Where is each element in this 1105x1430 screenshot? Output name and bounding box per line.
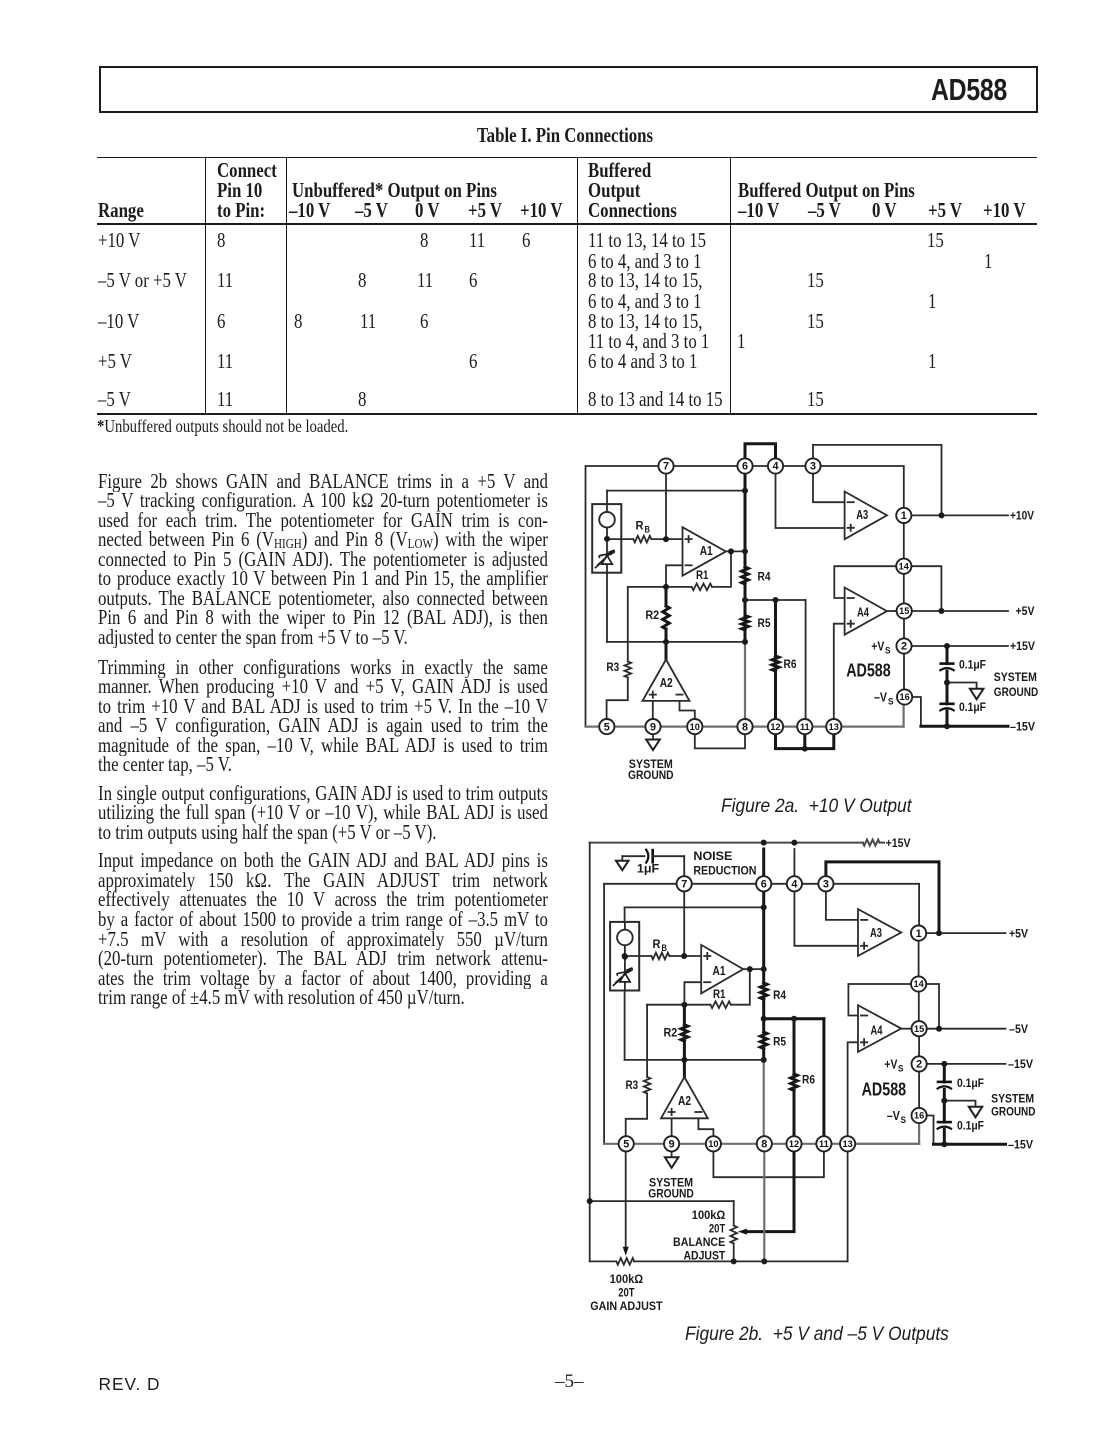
wire pin3 drop to A3 inverting input	[826, 891, 858, 920]
pin 9	[645, 719, 660, 734]
svg-text:NOISE: NOISE	[693, 849, 732, 863]
svg-text:12: 12	[770, 722, 780, 732]
resistor R3	[607, 662, 632, 720]
svg-text:R2: R2	[645, 608, 659, 622]
label C1 0.1uF	[957, 1076, 984, 1090]
gain wiper arrowhead	[623, 1247, 629, 1256]
wire balance pot top to left rail	[590, 1200, 734, 1202]
resistor R2	[663, 606, 670, 629]
wire A1 output to pin6 column	[726, 550, 745, 552]
pin 5	[619, 1136, 634, 1151]
resistor R2 column (thick)	[665, 587, 668, 642]
junction RB-A1 node under pin7	[681, 953, 687, 959]
wire -5V rail	[927, 1028, 1006, 1030]
svg-text:S: S	[888, 697, 894, 707]
resistor R2 label	[645, 608, 659, 622]
svg-text:0.1μF: 0.1μF	[957, 1076, 984, 1090]
svg-text:GROUND: GROUND	[648, 1186, 694, 1200]
svg-text:R5: R5	[773, 1035, 786, 1049]
pin 4	[768, 458, 783, 473]
wire left outer rail	[589, 843, 591, 1262]
resistor R6	[772, 656, 779, 671]
label GAIN ADJUST	[590, 1272, 663, 1313]
capacitor 1uF noise reduction	[622, 849, 684, 877]
wire pin7 left rail to pin5	[603, 884, 605, 1144]
resistor R6 column (thick)	[774, 600, 777, 719]
junction pin6 column on top rail	[761, 840, 767, 846]
wire bottom pin bus	[586, 704, 904, 726]
wire pin15 to pin2	[903, 618, 905, 638]
junction decoupling midpoint	[944, 680, 950, 686]
svg-text:A1: A1	[700, 543, 713, 558]
wire pin16 jog to -15V rail	[926, 1116, 933, 1145]
capacitor C1 0.1uF	[939, 664, 954, 671]
pin 1	[911, 926, 926, 941]
table body	[98, 232, 140, 252]
svg-text:R6: R6	[802, 1073, 815, 1087]
wire bottom pin bus	[604, 1124, 919, 1144]
wire zener chain below box	[624, 991, 626, 1060]
wire -15V rail (thick)	[921, 725, 1008, 728]
capacitor C1 0.1uF	[937, 1082, 952, 1089]
junction R6 top node	[791, 1016, 797, 1022]
footnote	[97, 416, 348, 437]
wire +5V rail	[927, 932, 1006, 934]
label -15V	[1010, 720, 1036, 734]
wire A2 inverting to pin10	[698, 1118, 713, 1136]
table header	[217, 162, 277, 182]
wire pin1 to pin14	[903, 523, 905, 559]
junction pin4 column on top rail	[791, 840, 797, 846]
wire pin2 to pin16	[918, 1072, 920, 1108]
pin 2	[912, 1056, 927, 1071]
wire RB node to A1 noninverting input	[607, 538, 683, 540]
wire jumper pin10 to pin8	[695, 734, 745, 749]
junction A1 inverting node	[681, 1002, 687, 1008]
label +15V top	[886, 836, 912, 850]
wire jumper pin6 to pin4	[745, 444, 776, 459]
svg-text:R2: R2	[664, 1026, 678, 1040]
junction -15V decoupling node	[941, 1141, 947, 1147]
op-amp A1	[701, 945, 743, 994]
wire A1 inverting input	[666, 565, 683, 587]
svg-text:16: 16	[899, 692, 909, 702]
svg-text:14: 14	[913, 979, 924, 989]
wire pin15 to pin2	[918, 1036, 920, 1056]
junction A1 inverting node	[663, 584, 669, 590]
svg-text:AD588: AD588	[862, 1078, 907, 1099]
wire pin14 to pin15	[918, 992, 920, 1022]
wire A4 noninverting input to pin13	[834, 624, 845, 720]
resistor RB	[651, 953, 669, 960]
pin 2	[896, 638, 911, 653]
svg-text:+5V: +5V	[1009, 926, 1029, 940]
svg-text:2: 2	[901, 641, 907, 653]
wire A1 feedback to R1	[731, 969, 750, 1005]
svg-text:1: 1	[916, 928, 922, 940]
svg-text:+15V: +15V	[1010, 639, 1036, 653]
pin 4	[787, 876, 802, 891]
label -VS pin16	[874, 691, 894, 707]
table rules	[97, 157, 1037, 159]
pin 14	[911, 976, 926, 991]
wire A4 output	[901, 1028, 911, 1030]
svg-text:A2: A2	[660, 675, 673, 690]
pin 9	[664, 1136, 679, 1151]
resistor (ferrite) on +15V feed	[863, 840, 880, 846]
resistor R6 column (thick)	[793, 1019, 796, 1137]
label +VS pin2	[871, 640, 890, 656]
svg-text:B: B	[645, 524, 651, 534]
svg-text:2: 2	[916, 1059, 922, 1071]
svg-text:S: S	[901, 1115, 907, 1125]
junction RB-A1 node under pin7	[663, 536, 669, 542]
svg-text:+15V: +15V	[886, 836, 912, 850]
wire middle node to system ground	[947, 683, 977, 689]
table title	[477, 127, 653, 147]
svg-text:A4: A4	[857, 605, 869, 620]
junction +15V decoupling node	[944, 643, 950, 649]
svg-text:R: R	[653, 937, 661, 951]
wire pin7 drop to RB node	[683, 891, 685, 956]
resistor R4	[742, 567, 749, 584]
resistor R3 label	[606, 660, 619, 674]
svg-text:20T: 20T	[618, 1286, 635, 1300]
wire pin3 to +5V node (thick)	[826, 862, 939, 933]
figure 2a schematic	[570, 430, 1070, 825]
resistor R4	[760, 983, 767, 999]
wire A2 noninverting to pin9	[652, 701, 654, 719]
wire A4 output	[887, 610, 897, 612]
label +10V	[1010, 509, 1035, 523]
footer	[99, 1374, 161, 1395]
pin 13	[840, 1136, 855, 1151]
svg-text:A4: A4	[871, 1022, 883, 1037]
svg-text:A1: A1	[713, 963, 726, 978]
svg-text:A3: A3	[856, 507, 868, 522]
resistor R5 label	[758, 616, 771, 630]
svg-text:5: 5	[604, 721, 610, 733]
svg-text:R1: R1	[696, 568, 709, 582]
svg-text:+V: +V	[884, 1057, 897, 1071]
op-amp A4	[845, 588, 887, 635]
resistor R2 column (thick)	[683, 1005, 686, 1060]
svg-text:A3: A3	[870, 925, 882, 940]
svg-text:0.1μF: 0.1μF	[959, 700, 986, 714]
wire decoupling column (thick)	[946, 646, 949, 726]
wire pin13 to pin16	[855, 1143, 919, 1145]
pin 13	[826, 719, 841, 734]
svg-text:B: B	[662, 943, 668, 953]
wire pin16 jog to -15V rail	[912, 697, 921, 726]
svg-text:10: 10	[690, 722, 700, 732]
capacitor C2 0.1uF	[937, 1122, 952, 1129]
svg-text:REDUCTION: REDUCTION	[693, 864, 756, 878]
svg-text:4: 4	[772, 461, 778, 473]
junction balance pot bottom on rail	[731, 1258, 737, 1264]
junction A2 apex node	[681, 1057, 687, 1063]
svg-text:SYSTEM: SYSTEM	[994, 670, 1037, 684]
label NOISE REDUCTION	[693, 849, 756, 878]
resistor RB	[633, 536, 651, 543]
resistor R5 label	[773, 1035, 786, 1049]
label SYSTEM GROUND pin9	[628, 757, 674, 782]
label -15V at pin2	[1008, 1057, 1034, 1071]
op-amp A3	[845, 492, 887, 540]
svg-text:R4: R4	[758, 570, 771, 584]
junction reference node	[622, 953, 628, 959]
svg-text:9: 9	[650, 721, 656, 733]
wire pin5 to gain wiper	[625, 1151, 627, 1248]
header box	[99, 66, 1038, 113]
svg-text:GROUND: GROUND	[994, 685, 1038, 699]
op-amp A1	[683, 527, 726, 576]
ground symbol right	[969, 1107, 982, 1118]
svg-text:8: 8	[761, 1139, 767, 1151]
pin 14	[896, 559, 911, 574]
svg-text:6: 6	[761, 879, 767, 891]
junction A2 apex node	[663, 639, 669, 645]
pin 11	[816, 1136, 831, 1151]
junction A1 output feedback	[728, 548, 734, 554]
wire zener chain below box	[606, 573, 608, 642]
wire +5V rail	[912, 610, 1009, 612]
pin 15	[912, 1021, 927, 1036]
reference cell (current source and zener)	[592, 504, 621, 573]
wire pin2 to pin16	[903, 653, 905, 689]
svg-text:16: 16	[914, 1111, 924, 1121]
resistor R2	[681, 1025, 688, 1041]
svg-text:R6: R6	[784, 657, 797, 671]
pin 6	[737, 458, 752, 473]
junction A1 output feedback	[747, 966, 753, 972]
wire R1 to inverting node and down-left to R3	[647, 1005, 710, 1077]
wire RB node to A1 noninverting input	[625, 955, 702, 957]
junction R5 bottom node	[742, 639, 748, 645]
svg-text:BALANCE: BALANCE	[673, 1235, 725, 1249]
resistor R4 label	[758, 570, 771, 584]
resistor R1 label	[713, 987, 726, 1001]
pin 16	[897, 689, 912, 704]
svg-text:8: 8	[742, 721, 748, 733]
wire pin1 to pin14	[918, 941, 920, 977]
wire bottom pot rail	[590, 1151, 848, 1261]
svg-text:1: 1	[901, 510, 907, 522]
wire -15V rail at pin2	[927, 1063, 1006, 1065]
pin 7	[658, 458, 673, 473]
junction decoupling top node	[941, 1061, 947, 1067]
junction R4-R5 node	[742, 597, 748, 603]
svg-text:ADJUST: ADJUST	[684, 1249, 726, 1263]
junction A1 output on pin6 column	[742, 548, 748, 554]
junction decoupling midpoint	[941, 1098, 947, 1104]
wire +10V rail	[911, 514, 1008, 516]
resistor R1	[692, 584, 712, 591]
pin 12	[786, 1136, 801, 1151]
junction R5 bottom node	[761, 1057, 767, 1063]
junction R4-R5 node	[761, 1016, 767, 1022]
svg-text:R: R	[636, 518, 644, 532]
wire A2 apex to node (thick)	[665, 642, 668, 660]
figure captions	[721, 796, 912, 818]
resistor R2 label	[664, 1026, 678, 1040]
wire A2 apex to node (thick)	[683, 1060, 686, 1077]
junction VHIGH on pin6 column	[761, 904, 767, 910]
label C2 0.1uF	[957, 1119, 984, 1133]
wire jumper pin14 to pin15 output	[926, 984, 939, 1029]
svg-text:3: 3	[823, 879, 829, 891]
svg-text:13: 13	[842, 1139, 852, 1149]
svg-text:–V: –V	[874, 691, 888, 705]
label +15V	[1010, 639, 1036, 653]
pin 12	[768, 719, 783, 734]
wire R4-R5 node to pin11	[745, 600, 806, 719]
label -VS pin16	[887, 1109, 906, 1125]
wire R1 to inverting node and down-left to R3	[628, 587, 692, 662]
svg-text:13: 13	[829, 722, 839, 732]
pin 8	[757, 1136, 772, 1151]
svg-text:R5: R5	[758, 616, 771, 630]
resistor R1	[710, 1001, 730, 1008]
op-amp A2 (points up)	[643, 660, 690, 701]
label -15V bottom	[1008, 1138, 1034, 1152]
wire decoupling column (thick)	[943, 1064, 946, 1144]
junction A1 output on pin6 column	[761, 966, 767, 972]
junction -15V decoupling node	[944, 723, 950, 729]
wire +15V rail	[911, 645, 1008, 647]
label 1uF	[637, 862, 660, 876]
svg-text:0.1μF: 0.1μF	[957, 1119, 984, 1133]
ground symbol pin9	[665, 1151, 679, 1168]
svg-text:R3: R3	[606, 660, 619, 674]
pin 16	[912, 1108, 927, 1123]
wire VHIGH reference to pin6 column	[625, 907, 764, 922]
potentiometer 100k balance	[730, 1201, 737, 1261]
svg-text:20T: 20T	[709, 1222, 726, 1236]
label AD588	[846, 660, 891, 681]
svg-text:R3: R3	[626, 1078, 639, 1092]
wire A2 inverting to pin10	[680, 701, 695, 719]
label BALANCE ADJUST	[673, 1208, 726, 1263]
pin 10	[706, 1136, 721, 1151]
wire ballast node rail (R2 bottom)	[625, 1059, 764, 1061]
label SYSTEM GROUND right	[991, 1091, 1035, 1118]
wire pin12 to balance wiper (thick)	[745, 1151, 794, 1231]
svg-text:–15V: –15V	[1010, 720, 1036, 734]
op-amp A3	[858, 909, 901, 956]
svg-text:1μF: 1μF	[637, 862, 660, 876]
op-amp A4	[858, 1005, 901, 1052]
wire A1 output to pin6 column	[743, 968, 764, 970]
noise reduction ground	[616, 856, 629, 870]
junction -5V output node	[936, 1026, 942, 1032]
junction +5V output node	[938, 608, 944, 614]
pin 3	[805, 458, 820, 473]
junction +5V output node	[936, 930, 942, 936]
wire VHIGH reference to pin6 column	[607, 491, 745, 505]
resistor R6 label	[784, 657, 797, 671]
pin 8	[737, 719, 752, 734]
wire pin7 drop to RB node	[665, 473, 667, 539]
paragraphs	[98, 473, 548, 493]
svg-text:GAIN ADJUST: GAIN ADJUST	[590, 1299, 663, 1313]
svg-text:10: 10	[708, 1139, 718, 1149]
wire pin8 drop to pot rail	[763, 1151, 765, 1261]
wire R5 bottom to pin8	[744, 642, 746, 719]
svg-text:–V: –V	[887, 1109, 901, 1123]
potentiometer 100k gain	[616, 1258, 634, 1265]
svg-text:14: 14	[899, 561, 910, 571]
pin 5	[599, 719, 614, 734]
wire pin7-pin3 top rail and left rail	[586, 466, 814, 727]
label +5V	[1016, 604, 1036, 618]
label -5V	[1009, 1022, 1029, 1036]
svg-text:AD588: AD588	[846, 660, 891, 681]
resistor RB label	[653, 937, 668, 953]
pin 6	[756, 876, 771, 891]
resistor R6 label	[802, 1073, 815, 1087]
svg-text:5: 5	[623, 1139, 629, 1151]
svg-text:12: 12	[789, 1139, 799, 1149]
junction pin8 drop on pot rail	[761, 1258, 767, 1264]
label SYSTEM GROUND pin9	[648, 1175, 694, 1200]
pin 3	[818, 876, 833, 891]
wire jumper pin12-pin11-pin13 (thick)	[776, 734, 834, 752]
svg-text:4: 4	[791, 879, 797, 891]
svg-text:S: S	[885, 646, 891, 656]
svg-text:15: 15	[914, 1024, 924, 1034]
wire -15V bottom rail (thick)	[934, 1143, 1006, 1146]
wire middle node to system ground	[944, 1101, 975, 1107]
resistor R6	[791, 1074, 798, 1091]
pin 11	[797, 719, 812, 734]
wire A1 inverting input	[684, 982, 701, 1005]
svg-text:9: 9	[669, 1139, 675, 1151]
wire pin14 to A4 inverting input	[848, 984, 911, 1016]
svg-text:+V: +V	[871, 640, 884, 654]
wire jumper pin3 to pin1	[813, 466, 904, 509]
wire top VHIGH rail to +15V	[590, 842, 884, 844]
wire pin14 to A4 inverting input	[834, 566, 896, 598]
label SYSTEM GROUND right	[994, 670, 1038, 699]
svg-text:SYSTEM: SYSTEM	[991, 1091, 1034, 1105]
svg-text:–15V: –15V	[1008, 1057, 1034, 1071]
junction VHIGH on pin6 column	[742, 488, 748, 494]
label +5V	[1009, 926, 1029, 940]
svg-text:0.1μF: 0.1μF	[959, 658, 986, 672]
wire pin3 to output node (top feedback)	[813, 445, 942, 516]
balance wiper arrowhead	[738, 1229, 747, 1235]
wire R4-R5 node to pin11 (thick)	[764, 1019, 824, 1137]
wire pin6 column (thick)	[744, 473, 747, 642]
ground symbol right	[970, 689, 984, 700]
junction +10V output node	[939, 512, 945, 518]
svg-text:7: 7	[681, 879, 687, 891]
svg-text:7: 7	[663, 461, 669, 473]
op-amp A2 (points up)	[661, 1077, 708, 1118]
svg-text:+10V: +10V	[1010, 509, 1035, 523]
pin 1	[896, 508, 911, 523]
svg-text:3: 3	[810, 461, 816, 473]
wire top pins line	[604, 883, 826, 885]
wire pin6 column (thick)	[762, 849, 765, 1060]
svg-text:11: 11	[800, 722, 810, 732]
wire jumper pin14 to pin15 output	[911, 566, 941, 611]
figure 2b schematic	[580, 835, 1070, 1320]
wire R5 bottom to pin8	[763, 1060, 765, 1137]
label AD588	[862, 1078, 907, 1099]
label C2 0.1uF	[959, 700, 986, 714]
